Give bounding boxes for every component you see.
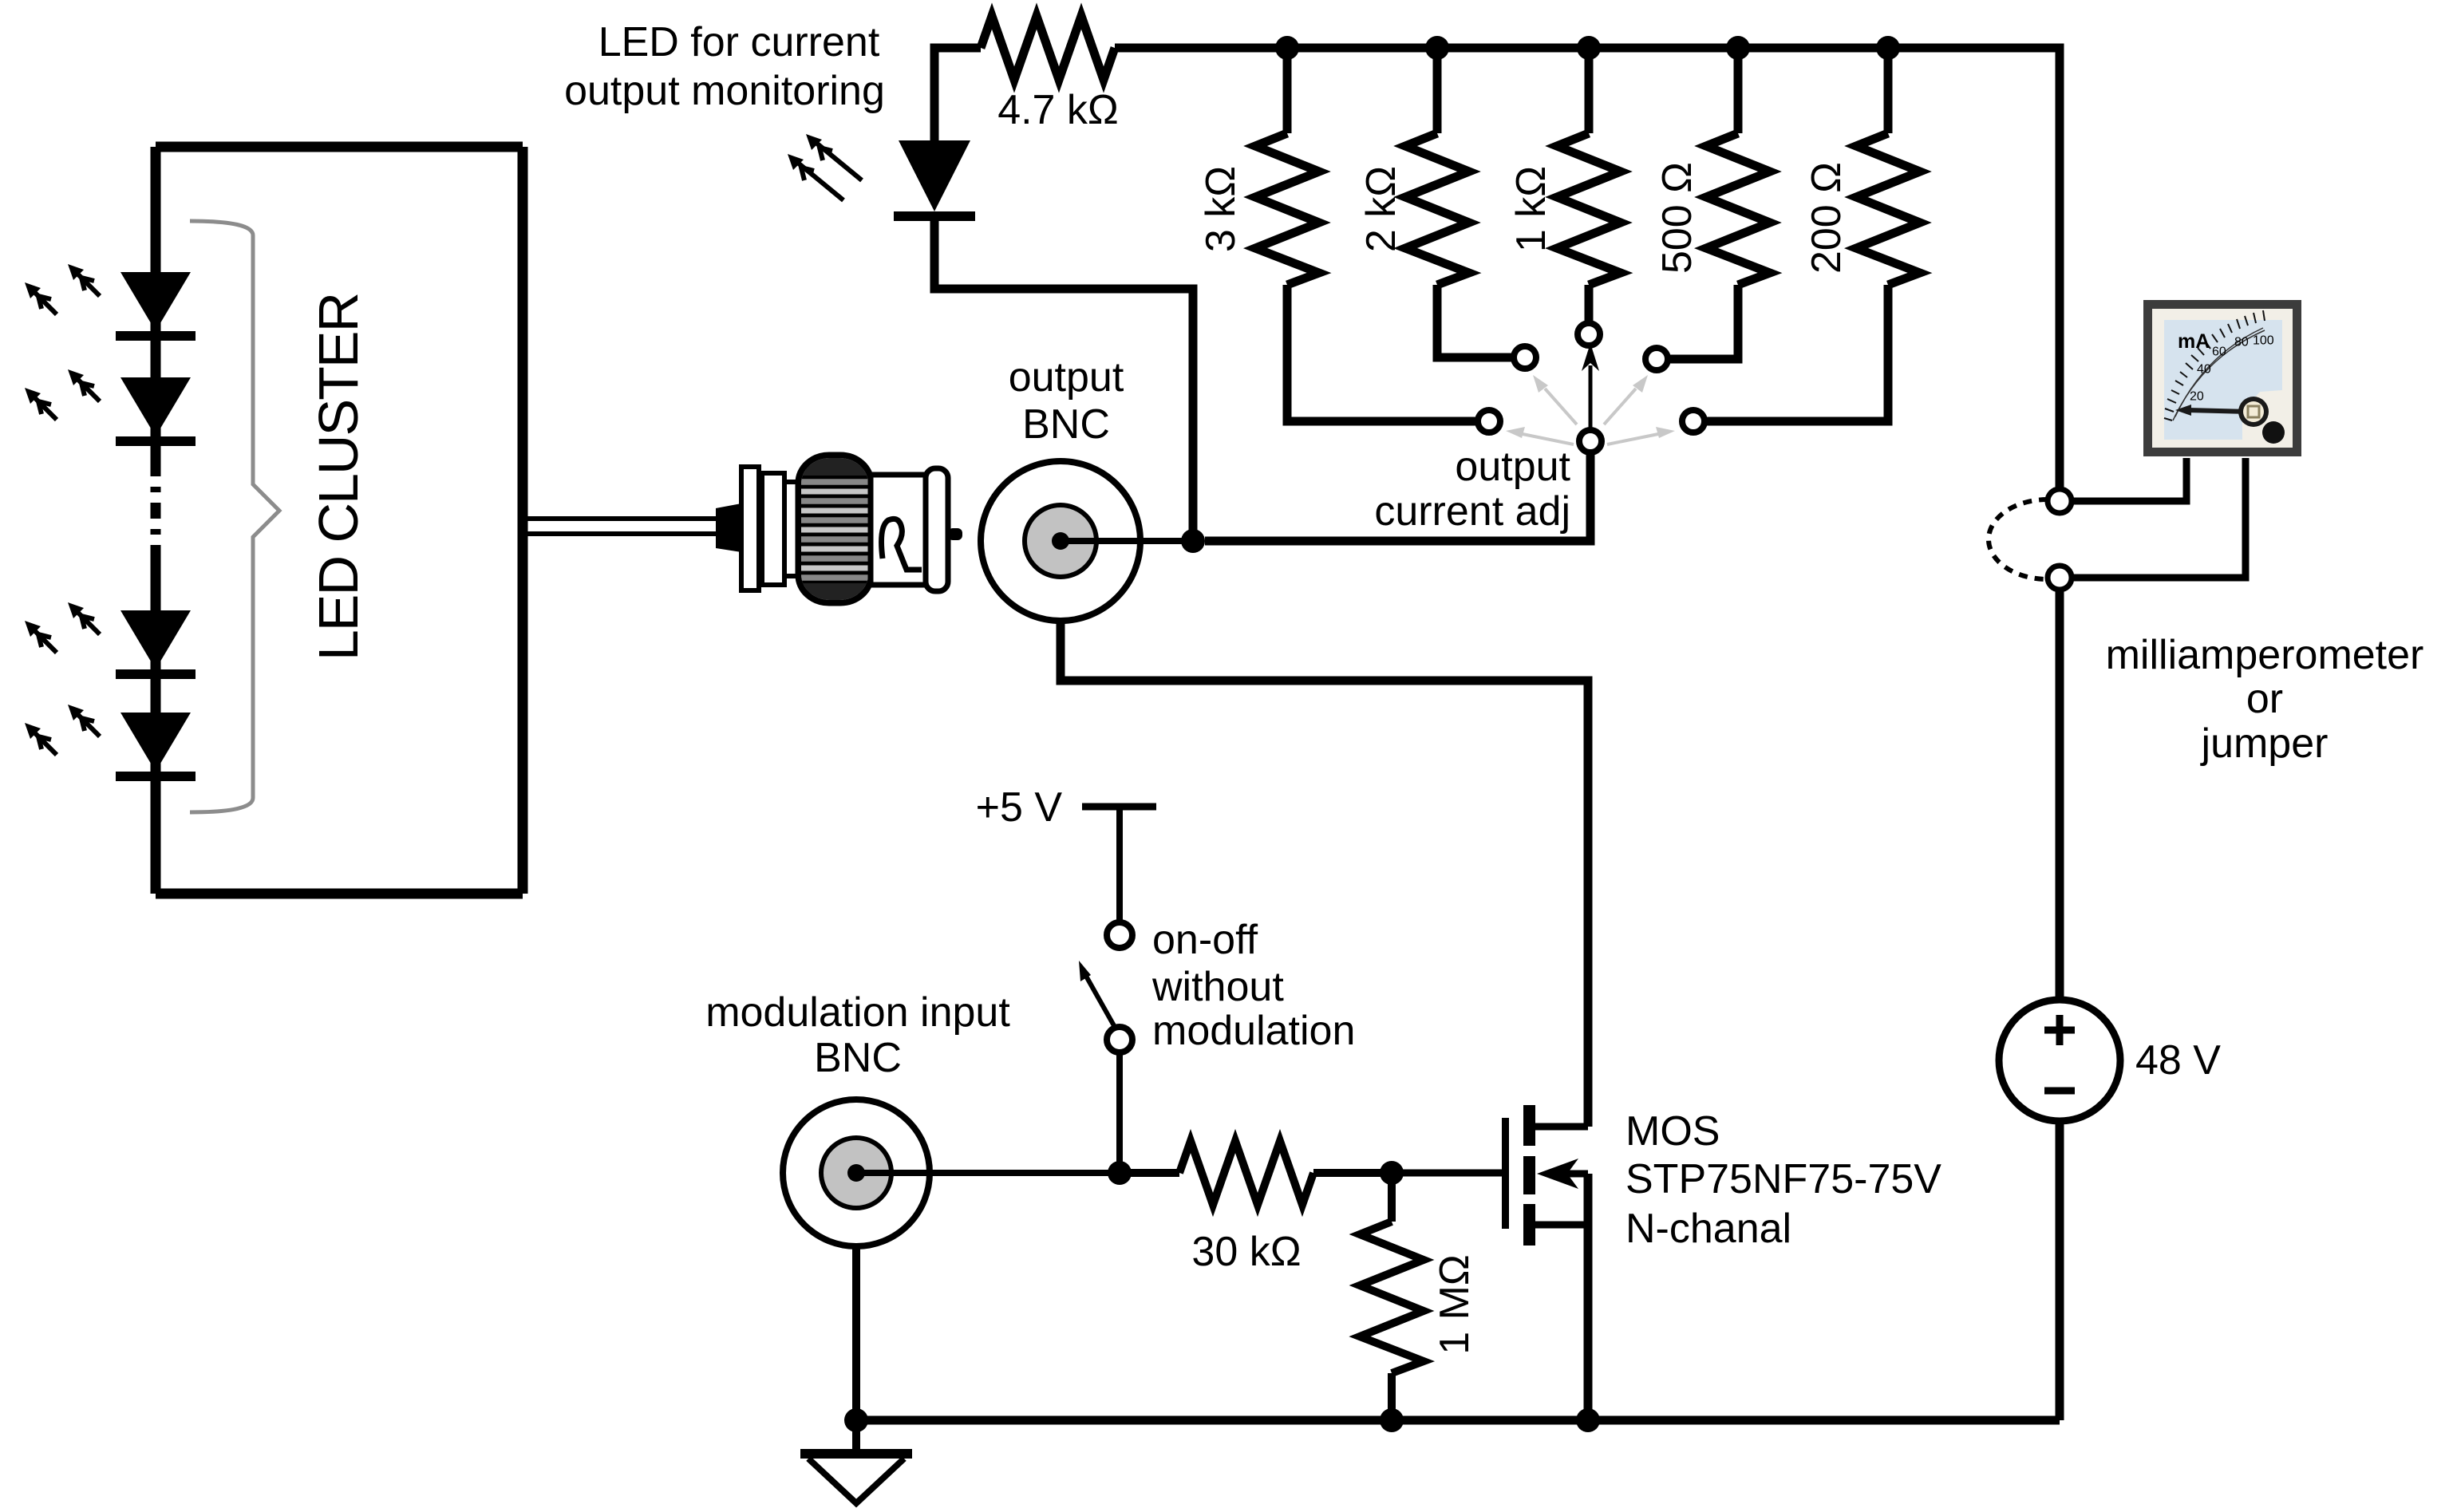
svg-text:STP75NF75-75V: STP75NF75-75V: [1625, 1156, 1941, 1202]
svg-text:modulation input: modulation input: [705, 989, 1010, 1036]
svg-text:30 kΩ: 30 kΩ: [1191, 1229, 1301, 1275]
svg-text:mA: mA: [2178, 330, 2210, 353]
svg-text:output monitoring: output monitoring: [564, 68, 885, 114]
svg-text:on-off: on-off: [1152, 917, 1258, 963]
svg-text:output: output: [1009, 354, 1124, 401]
svg-text:60: 60: [2212, 345, 2226, 359]
svg-text:LED CLUSTER: LED CLUSTER: [307, 294, 369, 661]
svg-text:80: 80: [2234, 336, 2249, 349]
svg-text:40: 40: [2197, 363, 2211, 377]
svg-text:MOS: MOS: [1625, 1108, 1720, 1155]
svg-text:1 kΩ: 1 kΩ: [1508, 166, 1554, 252]
svg-text:2 kΩ: 2 kΩ: [1358, 166, 1404, 252]
svg-text:output: output: [1455, 444, 1570, 490]
svg-text:1 MΩ: 1 MΩ: [1432, 1254, 1478, 1355]
svg-text:20: 20: [2190, 390, 2204, 404]
svg-text:100: 100: [2253, 334, 2274, 348]
svg-text:200 Ω: 200 Ω: [1803, 162, 1850, 274]
svg-text:BNC: BNC: [1022, 401, 1110, 448]
svg-text:milliamperometer: milliamperometer: [2106, 632, 2424, 678]
svg-text:or: or: [2246, 676, 2283, 722]
svg-text:500 Ω: 500 Ω: [1654, 162, 1701, 274]
svg-text:48 V: 48 V: [2135, 1037, 2221, 1084]
svg-text:3 kΩ: 3 kΩ: [1198, 166, 1244, 252]
svg-text:without: without: [1151, 964, 1284, 1010]
svg-text:jumper: jumper: [2200, 720, 2329, 767]
svg-text:4.7 kΩ: 4.7 kΩ: [997, 87, 1119, 133]
svg-text:LED for current: LED for current: [598, 19, 880, 65]
svg-text:BNC: BNC: [814, 1035, 902, 1081]
svg-text:N-chanal: N-chanal: [1625, 1206, 1791, 1252]
svg-text:+5 V: +5 V: [976, 784, 1063, 831]
svg-text:modulation: modulation: [1152, 1008, 1355, 1054]
svg-text:current adj: current adj: [1374, 488, 1570, 535]
